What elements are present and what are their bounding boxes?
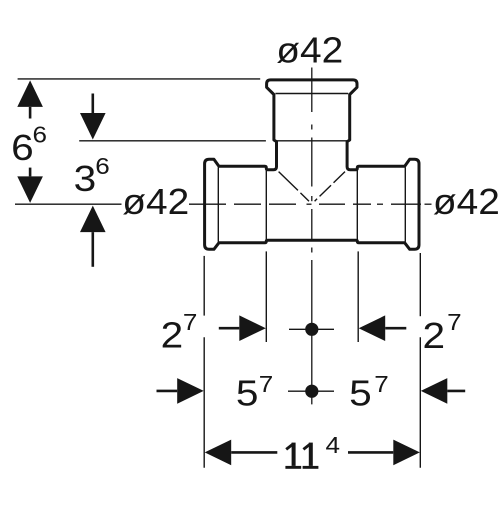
extension line left end (L1) (203, 256, 205, 468)
node: center dot row1 (305, 323, 318, 336)
wire: crotch diagonal right (315, 172, 345, 202)
right socket depth line (356, 169, 358, 241)
dimension line insertion depth level (79, 140, 266, 142)
centerline vertical (node: branch axis) (311, 68, 313, 405)
wire: crotch diagonal left (279, 172, 309, 202)
svg-text:7: 7 (259, 371, 274, 397)
arrow 6-6 down (17, 168, 43, 203)
right flare inner line (404, 167, 406, 242)
svg-text:3: 3 (74, 158, 97, 199)
arrow row2 right (points left) (421, 378, 465, 404)
svg-text:2: 2 (161, 314, 184, 355)
svg-text:7: 7 (183, 309, 198, 335)
centerline horizontal (node: main axis) (15, 203, 432, 205)
svg-text:5: 5 (236, 372, 259, 413)
arrow row1 right (points left) (359, 315, 407, 341)
branch insertion depth line (275, 140, 348, 142)
svg-text:6: 6 (11, 127, 34, 168)
extension line right depth (L4) (357, 251, 359, 342)
arrow 3-6 down (80, 94, 106, 140)
node: center dot row2 (305, 385, 318, 398)
svg-text:7: 7 (374, 371, 389, 397)
extension line right end (L5) (419, 253, 421, 468)
svg-text:6: 6 (95, 153, 110, 179)
label 11^4 : custom "1" glyphs with foot serif (285, 443, 318, 469)
arrow 6-6 up (17, 80, 43, 118)
arrow row1 left (points right) (219, 315, 266, 341)
svg-text:5: 5 (349, 372, 372, 413)
svg-text:7: 7 (447, 309, 462, 335)
left socket depth line (265, 169, 267, 241)
svg-text:6: 6 (33, 122, 48, 148)
branch flare inner line (275, 93, 348, 95)
tee fitting outline (205, 80, 419, 249)
svg-text:ø42: ø42 (122, 181, 189, 222)
arrow row3 right (points right) (348, 440, 420, 466)
arrow 3-6 up (80, 206, 106, 267)
svg-text:ø42: ø42 (276, 29, 343, 70)
svg-text:4: 4 (326, 432, 341, 458)
arrow row2 left (points right) (157, 378, 204, 404)
thin interior lines of fitting (218, 94, 405, 242)
extension line left depth (L2) (265, 251, 267, 342)
svg-text:ø42: ø42 (433, 181, 500, 222)
svg-text:2: 2 (423, 315, 446, 356)
left flare inner line (217, 167, 219, 242)
dimension line top (level of branch top) (18, 78, 261, 80)
arrow row3 left (points left) (205, 440, 278, 466)
